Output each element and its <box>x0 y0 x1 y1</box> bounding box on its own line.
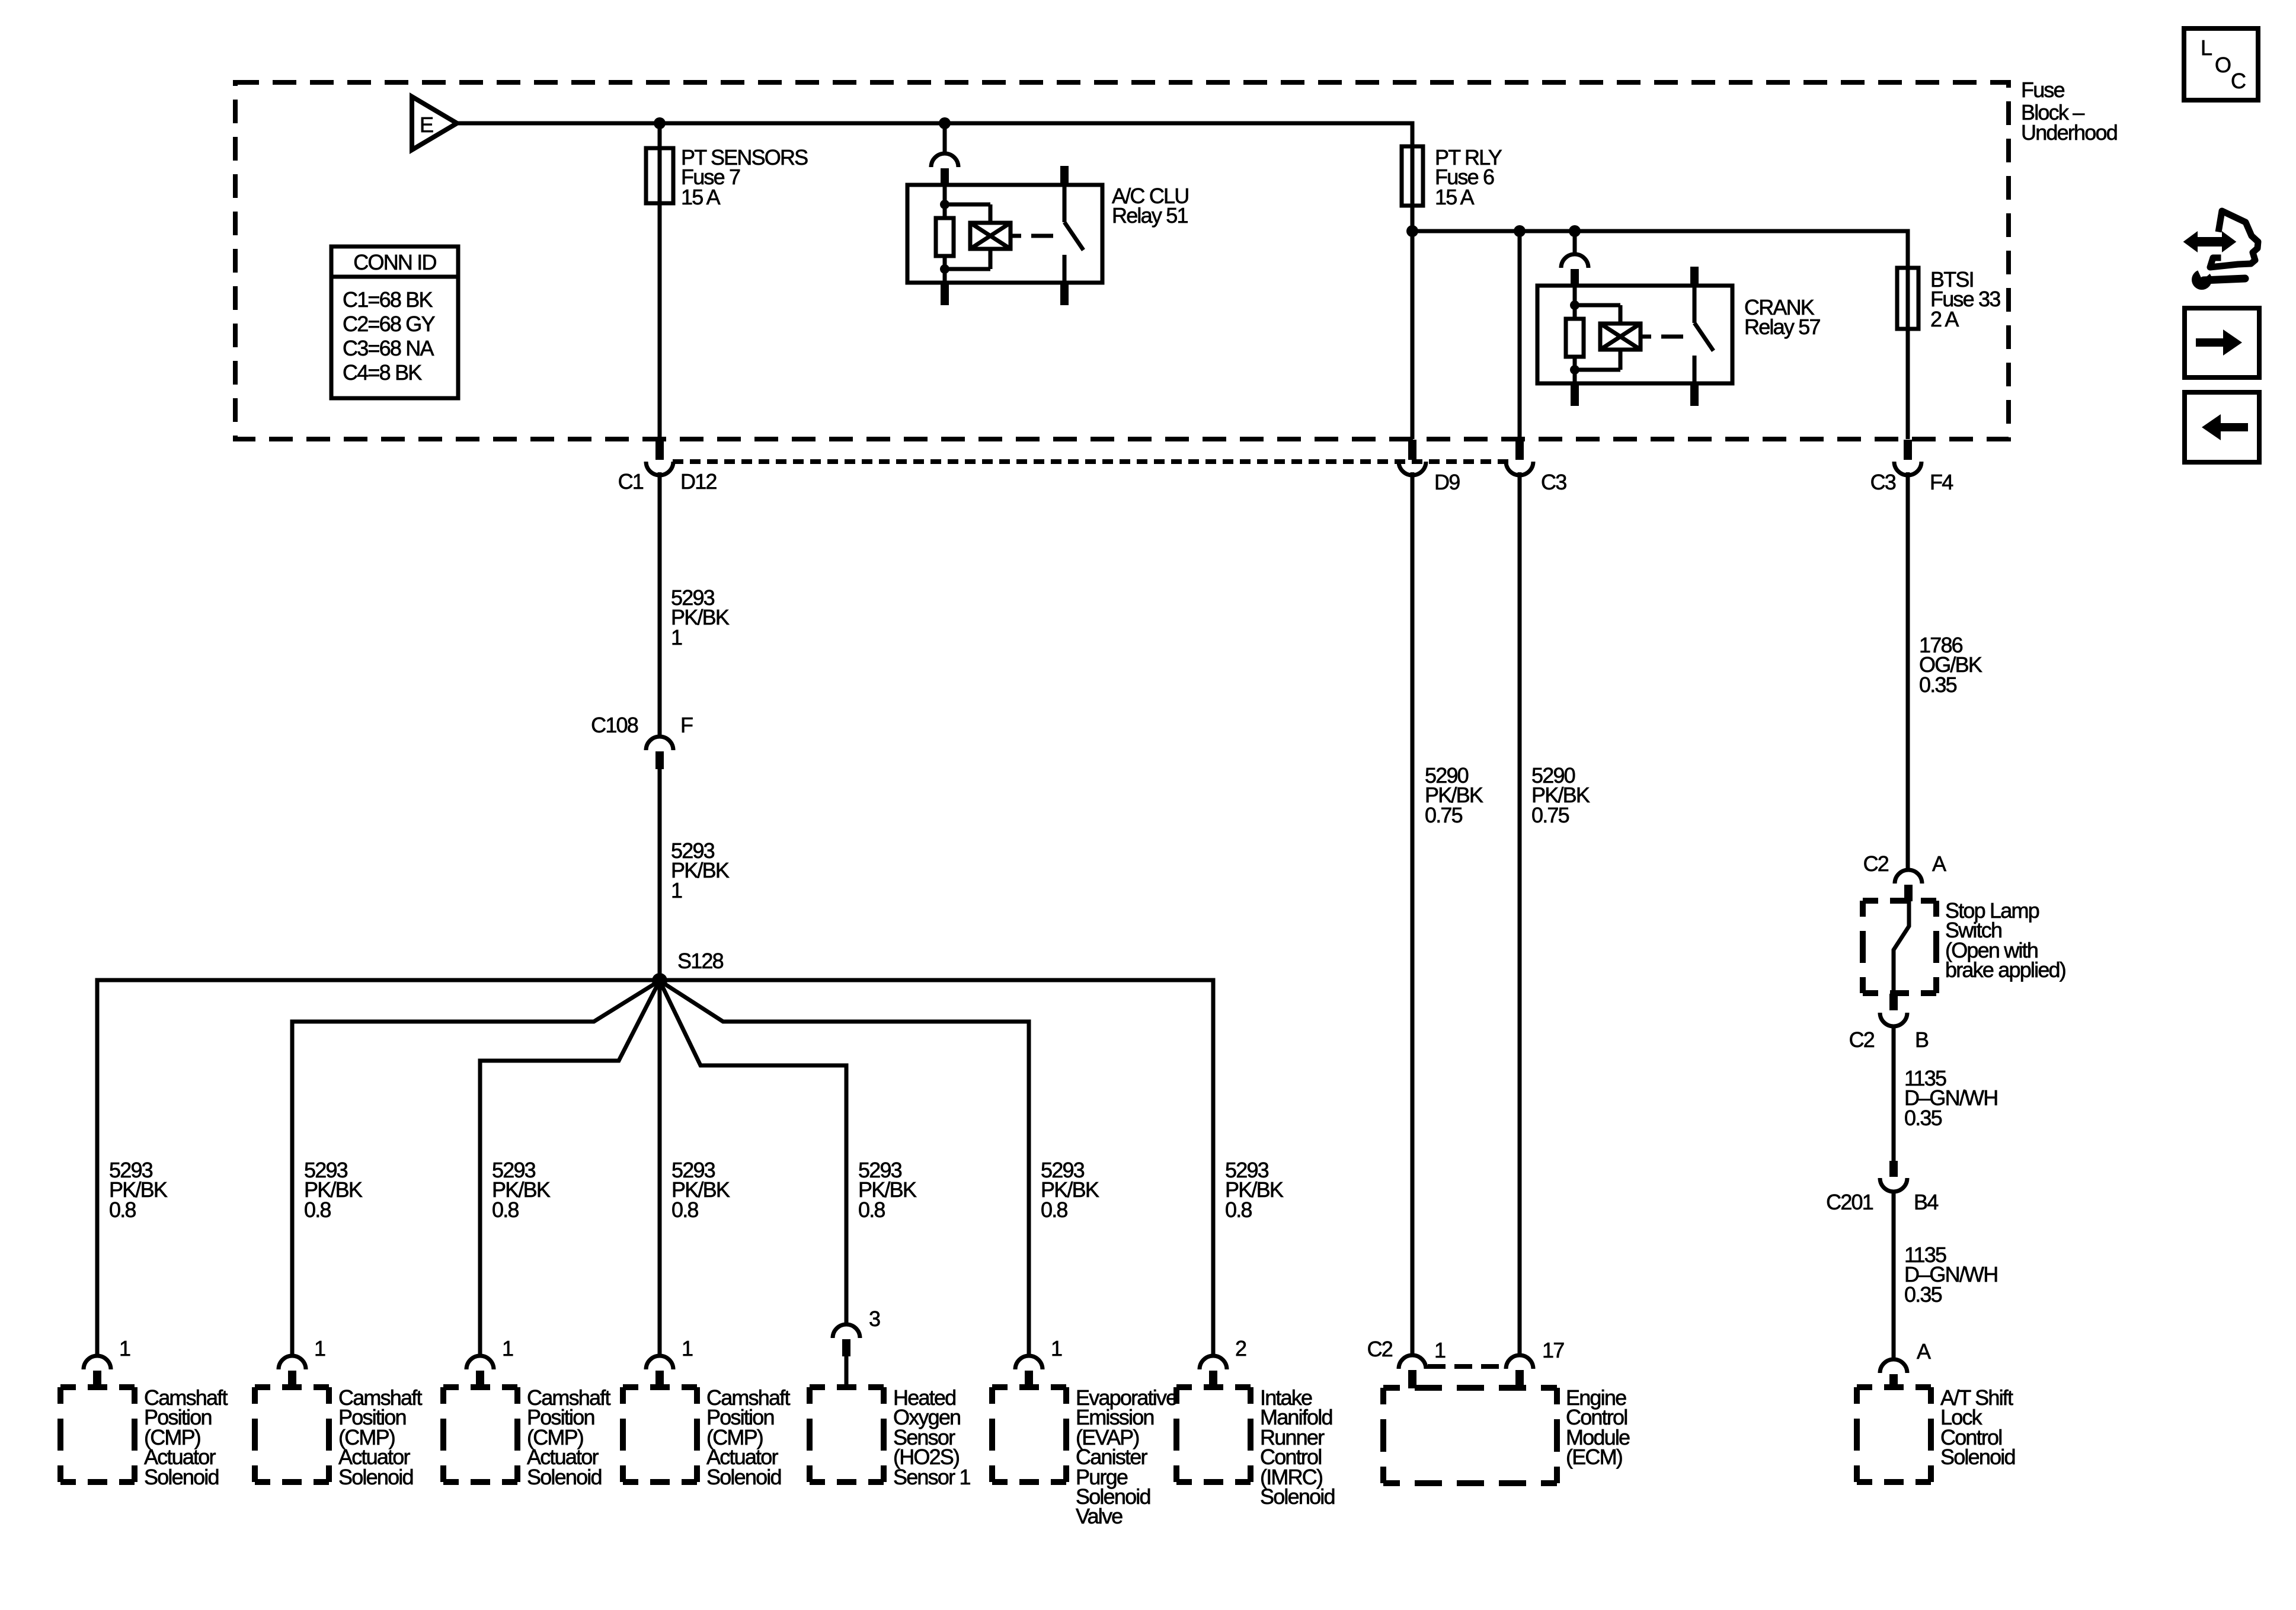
svg-text:0.8: 0.8 <box>671 1198 698 1222</box>
svg-text:Sensor 1: Sensor 1 <box>893 1465 970 1489</box>
relay A/C CLU Relay 51 box <box>907 185 1102 283</box>
svg-text:D12: D12 <box>680 469 717 494</box>
wire PT SENSORS fuse drop <box>658 123 662 439</box>
svg-text:Solenoid: Solenoid <box>338 1465 413 1489</box>
svg-text:A: A <box>1917 1339 1931 1363</box>
svg-text:C2: C2 <box>1367 1337 1393 1361</box>
svg-text:1: 1 <box>671 878 682 902</box>
svg-text:Solenoid: Solenoid <box>706 1465 781 1489</box>
svg-text:1: 1 <box>682 1336 693 1361</box>
junction node C3 branch <box>1514 225 1526 237</box>
wire branch 6 (EVAP) <box>660 981 1029 1356</box>
svg-text:C108: C108 <box>591 713 638 737</box>
vehicle icon wrench <box>2192 270 2212 290</box>
fuse block underhood dashed border <box>235 82 2009 439</box>
svg-text:Underhood: Underhood <box>2021 120 2117 145</box>
ECM connector dashes <box>1428 1364 1507 1369</box>
connector C201 pin B4 <box>1889 1161 1898 1177</box>
connector pin 1 at Evaporative x1736 <box>1015 1356 1043 1369</box>
connector pin 3 at HO2S <box>833 1324 860 1338</box>
wire main bus from E <box>457 123 1412 439</box>
relay CRANK Relay 57 box <box>1537 286 1732 383</box>
svg-text:C: C <box>2231 69 2246 93</box>
vehicle icon double arrow <box>2185 233 2234 250</box>
component box Camshaft <box>60 1384 135 1390</box>
wire 1786 OG/BK F4 to stop lamp switch <box>1906 472 1910 870</box>
svg-text:B: B <box>1915 1028 1929 1052</box>
svg-text:CONN ID: CONN ID <box>353 250 436 274</box>
wire branch 3 (CMP3) <box>480 981 660 1356</box>
connector C3 (left) <box>1515 440 1524 460</box>
svg-text:1: 1 <box>314 1336 325 1361</box>
connector C2 pin B <box>1889 994 1898 1010</box>
svg-text:C3: C3 <box>1541 470 1566 494</box>
svg-text:L: L <box>2201 36 2212 60</box>
svg-text:F: F <box>680 713 693 737</box>
svg-text:C2: C2 <box>1863 852 1889 876</box>
connector pin 2 at Intake x2047 <box>1200 1356 1227 1369</box>
connector pin 1 at Camshaft x810 <box>466 1356 494 1369</box>
connector C2 pin A <box>1895 870 1922 884</box>
wire feed bus below PT RLY fuse <box>1412 231 1908 439</box>
svg-text:1: 1 <box>502 1336 513 1361</box>
svg-text:Relay 51: Relay 51 <box>1112 203 1188 228</box>
svg-text:0.35: 0.35 <box>1904 1106 1942 1130</box>
svg-text:S128: S128 <box>677 949 724 973</box>
svg-text:brake applied): brake applied) <box>1945 958 2065 982</box>
relay CRANK Relay 57 coil winding <box>1575 303 1620 308</box>
junction node at PT SENSORS fuse <box>654 117 666 129</box>
svg-text:0.8: 0.8 <box>1041 1198 1067 1222</box>
relay CRANK Relay 57 actuation dash <box>1661 335 1683 339</box>
svg-text:C3: C3 <box>1870 470 1896 494</box>
connector C2 pin 17 at ECM <box>1506 1355 1533 1369</box>
svg-text:E: E <box>420 113 433 137</box>
svg-text:2: 2 <box>1235 1336 1246 1361</box>
svg-text:0.75: 0.75 <box>1531 803 1569 827</box>
A/T shift lock control solenoid box <box>1857 1384 1931 1390</box>
junction node CRANK relay branch <box>1569 225 1581 237</box>
svg-text:1: 1 <box>1434 1338 1446 1362</box>
svg-text:Fuse: Fuse <box>2021 78 2065 102</box>
relay A/C CLU Relay 51 coil resistor branch <box>943 185 947 218</box>
svg-text:1: 1 <box>1051 1336 1062 1361</box>
wire 5293 PK/BK from C1 to C108 <box>658 472 662 737</box>
svg-text:C2: C2 <box>1849 1028 1875 1052</box>
svg-text:Solenoid: Solenoid <box>144 1465 219 1489</box>
connector C1/D12 <box>655 440 664 460</box>
junction node at A/C CLU relay drop <box>939 117 951 129</box>
svg-text:0.35: 0.35 <box>1904 1282 1942 1307</box>
stop lamp switch blade <box>1894 901 1909 994</box>
svg-text:3: 3 <box>869 1307 880 1331</box>
relay A/C CLU Relay 51 actuation dash <box>1031 234 1053 238</box>
svg-text:0.35: 0.35 <box>1919 673 1957 697</box>
svg-text:A: A <box>1932 852 1946 876</box>
svg-text:C4=8 BK: C4=8 BK <box>343 360 422 385</box>
component box Camshaft <box>443 1384 517 1390</box>
connector pin A at A/T solenoid <box>1880 1359 1907 1373</box>
LOC reference box <box>2184 28 2258 100</box>
vehicle direction icon outline <box>2210 211 2258 267</box>
svg-text:C201: C201 <box>1826 1190 1873 1214</box>
svg-text:(ECM): (ECM) <box>1566 1445 1622 1469</box>
relay A/C CLU Relay 51 coil pin stub <box>941 283 949 305</box>
relay A/C CLU Relay 51 switch <box>1060 166 1069 185</box>
svg-text:0.75: 0.75 <box>1425 803 1463 827</box>
svg-text:0.8: 0.8 <box>492 1198 519 1222</box>
svg-text:15 A: 15 A <box>681 185 721 209</box>
component box Intake <box>1176 1384 1251 1390</box>
junction node D9 branch <box>1406 225 1418 237</box>
connector D9 <box>1408 440 1416 460</box>
component box Camshaft <box>255 1384 329 1390</box>
svg-text:D9: D9 <box>1434 470 1460 494</box>
svg-text:0.8: 0.8 <box>304 1198 331 1222</box>
wire 5290 PK/BK D9 to ECM pin 1 <box>1411 472 1415 1355</box>
relay CRANK Relay 57 coil resistor branch <box>1573 286 1577 319</box>
component box Camshaft <box>623 1384 697 1390</box>
svg-text:2 A: 2 A <box>1930 307 1959 331</box>
svg-text:B4: B4 <box>1914 1190 1938 1214</box>
svg-text:1: 1 <box>671 625 682 649</box>
svg-text:Solenoid: Solenoid <box>527 1465 602 1489</box>
svg-text:F4: F4 <box>1930 470 1953 494</box>
wire A/C relay drop <box>943 123 947 153</box>
svg-text:17: 17 <box>1542 1338 1564 1362</box>
node E power feed triangle <box>412 97 457 150</box>
engine control module box <box>1383 1385 1557 1391</box>
svg-text:Valve: Valve <box>1076 1504 1123 1528</box>
wire 1135 D-GN/WH to A/T shift lock solenoid <box>1892 1192 1896 1359</box>
wire CRANK relay drop <box>1573 231 1577 254</box>
svg-text:0.8: 0.8 <box>858 1198 885 1222</box>
fuse PT SENSORS Fuse 7 <box>646 148 673 203</box>
svg-text:C3=68 NA: C3=68 NA <box>343 336 434 360</box>
wire branch 5 (HO2S) <box>660 981 846 1324</box>
component box Heated <box>810 1384 884 1390</box>
wire 5290 PK/BK C3 to ECM pin 17 <box>1518 472 1522 1355</box>
svg-text:Solenoid: Solenoid <box>1260 1484 1335 1509</box>
svg-text:Solenoid: Solenoid <box>1940 1445 2015 1469</box>
connector pin 1 at Camshaft x164 <box>84 1356 111 1369</box>
pin into A/C relay <box>941 168 949 185</box>
svg-text:15 A: 15 A <box>1435 185 1475 209</box>
connector C108/F <box>646 737 673 750</box>
svg-text:0.8: 0.8 <box>1225 1198 1252 1222</box>
svg-text:C1=68 BK: C1=68 BK <box>343 287 433 312</box>
wire C3 drop inside fuse block <box>1518 231 1522 439</box>
fuse PT RLY Fuse 6 <box>1402 146 1423 206</box>
relay CRANK Relay 57 switch <box>1690 267 1699 286</box>
wire 5293 PK/BK from C108 to S128 <box>658 769 662 1356</box>
next-page arrow box <box>2185 308 2259 377</box>
relay A/C CLU Relay 51 coil winding <box>945 203 990 207</box>
wire branch 2 (CMP2) <box>292 981 660 1356</box>
connector row dotted line C1-C3 <box>673 459 1511 464</box>
svg-text:0.8: 0.8 <box>109 1198 136 1222</box>
CONN ID table <box>331 247 458 398</box>
svg-text:1: 1 <box>119 1336 130 1361</box>
prev-page arrow box <box>2185 392 2259 462</box>
connector pin 1 at Camshaft x493 <box>279 1356 306 1369</box>
component box Evaporative <box>992 1384 1066 1390</box>
svg-text:Relay 57: Relay 57 <box>1744 315 1820 339</box>
connector pin 1 at Camshaft x1113 <box>646 1356 673 1369</box>
connector cup at CRANK relay <box>1561 254 1588 268</box>
splice S128 bus <box>97 980 1213 1356</box>
stop lamp switch box <box>1863 898 1936 904</box>
connector C2 pin 1 at ECM <box>1399 1355 1426 1369</box>
fuse BTSI Fuse 33 <box>1897 268 1918 329</box>
connector C3/F4 <box>1904 440 1912 460</box>
svg-text:O: O <box>2215 53 2231 77</box>
svg-text:C1: C1 <box>618 469 644 494</box>
connector cup at A/C relay <box>931 153 958 167</box>
relay CRANK Relay 57 coil pin stub <box>1571 383 1579 406</box>
svg-text:C2=68 GY: C2=68 GY <box>343 312 435 336</box>
splice S128 node <box>652 973 667 988</box>
pin into CRANK relay <box>1571 269 1579 286</box>
wire 1135 D-GN/WH to C201 <box>1892 1026 1896 1161</box>
